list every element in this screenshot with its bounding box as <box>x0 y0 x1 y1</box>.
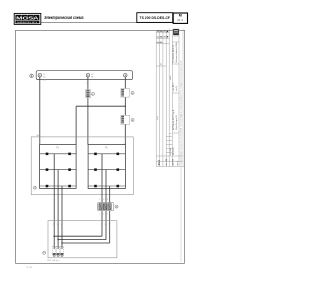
wire: horizontal branch tying W2 node to W3 <box>76 105 125 107</box>
wire U2: right rectifier output to terminal block <box>101 154 103 203</box>
svg-text:MOSA: MOSA <box>16 16 39 22</box>
wire: X2 pin 1 drop <box>101 211 103 237</box>
diode D3 <box>46 168 49 171</box>
fuse F2 reference bubble <box>131 91 134 94</box>
svg-text:04.03.03: 04.03.03 <box>173 148 175 155</box>
socket reference bubble P <box>43 251 46 254</box>
sheet ref box M 01.4 <box>173 13 187 23</box>
title block property fine print <box>180 61 183 165</box>
svg-text:230V 16A 3p+t: 230V 16A 3p+t <box>47 259 60 262</box>
title block grid lines <box>156 29 184 167</box>
svg-text:scala: scala <box>170 76 172 80</box>
diode D10 <box>117 168 120 171</box>
pin labels below terminal block <box>99 213 108 215</box>
fuse holder FU1 <box>53 246 56 256</box>
wire: cross link pin1 to wire U <box>54 235 102 237</box>
fuse F1 reference bubble <box>91 92 94 95</box>
pin labels 1 2 3 above terminal block <box>99 199 109 201</box>
svg-text:Bk: Bk <box>37 135 39 137</box>
title block bottom rows: sheet number and approvals <box>157 158 179 165</box>
diode D9 <box>94 168 97 171</box>
terminal block X2 <box>97 203 113 211</box>
title block MOSA logo <box>173 29 179 35</box>
header rule <box>41 22 188 24</box>
terminal 3 on bus <box>124 74 127 77</box>
alternator output terminal bus X1 <box>36 71 132 80</box>
diode D2 <box>68 153 71 156</box>
diode D11 <box>94 185 97 188</box>
svg-text:foglio: foglio <box>157 116 159 120</box>
wire W1: terminal 1 to left rectifier <box>39 77 41 144</box>
model title box TS 200 DS-DES-CF <box>137 13 173 23</box>
svg-text:MOSA div. BCS S.p.A.: MOSA div. BCS S.p.A. <box>172 109 175 130</box>
junction on W2 at branch <box>87 106 88 107</box>
wire: X2 pin 2 drop <box>105 211 107 240</box>
diode D4 <box>68 168 71 171</box>
fuse F1 on wire W2 <box>86 90 91 98</box>
svg-text:M: M <box>164 31 166 33</box>
svg-text:Viale Europa 59: Viale Europa 59 <box>175 114 178 130</box>
phase labels U V W left <box>53 224 63 226</box>
svg-text:0: 0 <box>170 133 172 134</box>
diode D8 <box>117 153 120 156</box>
phase labels U V W right <box>101 224 111 226</box>
enclosure reference bubble G <box>33 186 36 189</box>
terminal 1 on bus <box>38 74 41 77</box>
node L1 label <box>43 74 46 78</box>
svg-text:appr. M: appr. M <box>173 158 175 165</box>
diode D6 <box>68 185 71 188</box>
svg-text:G: G <box>34 188 36 190</box>
svg-text:M 243: M 243 <box>27 267 33 269</box>
svg-text:M: M <box>164 37 166 39</box>
diode D1 <box>46 153 49 156</box>
svg-text:Bk: Bk <box>43 80 45 82</box>
left rectifier bridge T1 body <box>40 144 77 188</box>
fuse F2 on wire W3 <box>121 89 130 98</box>
right rectifier bridge T2 body <box>88 145 125 189</box>
wire V: left rectifier output to fuse holder <box>57 170 59 249</box>
svg-text:W: W <box>61 224 63 226</box>
MOSA logo box <box>14 13 41 24</box>
svg-text:Schema elettrico 50Hz: Schema elettrico 50Hz <box>175 42 178 63</box>
svg-text:1: 1 <box>99 213 100 215</box>
auxiliary socket box <box>48 221 117 258</box>
wire W2b: right rectifier output to terminal block <box>109 186 111 203</box>
wire: X2 pin 3 drop <box>109 211 111 243</box>
junction on wire W <box>61 242 63 244</box>
svg-text:tav. M: tav. M <box>175 86 178 91</box>
wire V2: right rectifier output to terminal block <box>105 170 107 203</box>
wire U: left rectifier output to fuse holder <box>53 154 55 249</box>
title block sheet cross-reference texts <box>157 31 169 45</box>
svg-text:01.4: 01.4 <box>177 18 183 22</box>
fuse F3 on wire W3 <box>121 115 130 124</box>
fuse holder FU2 <box>56 246 59 256</box>
fuse holder FU3 <box>60 246 63 256</box>
junction on W3 at branch <box>125 106 126 107</box>
wire: cross link pin2 to wire V <box>58 239 106 241</box>
fuse F3 reference bubble <box>131 118 134 121</box>
junction on wire V <box>57 239 59 241</box>
svg-text:GENERATING SETS: GENERATING SETS <box>17 21 38 24</box>
svg-text:4c: 4c <box>160 42 162 44</box>
svg-text:dis. GB: dis. GB <box>166 158 168 165</box>
generator enclosure boundary <box>31 137 133 195</box>
svg-text:Электрическая схема: Электрическая схема <box>44 15 84 20</box>
inner frame right edge <box>180 167 182 263</box>
wire: cross link pin3 to wire W <box>62 242 110 244</box>
svg-text:01.4: 01.4 <box>157 160 161 166</box>
wire: branch drop to left rectifier top <box>75 106 77 144</box>
svg-text:Il presente disegno e di propr: Il presente disegno e di proprieta riser… <box>180 61 183 165</box>
terminal 2 on bus <box>86 74 89 77</box>
svg-text:W: W <box>108 224 110 226</box>
junction on wire U <box>53 235 55 237</box>
svg-text:TS 200 DS-DES-CF: TS 200 DS-DES-CF <box>140 16 171 20</box>
diode D7 <box>94 153 97 156</box>
ground PE symbol <box>30 74 34 78</box>
node L2 label <box>91 74 93 78</box>
drawing frame <box>16 30 185 263</box>
wire W2: terminal 2 to right rectifier <box>87 77 89 145</box>
svg-text:2: 2 <box>103 213 104 215</box>
wire W3: terminal 3 down the right side <box>124 77 126 145</box>
title block rotated description texts <box>157 42 178 155</box>
svg-text:rev. data: rev. data <box>169 148 172 155</box>
wire W: left rectifier output to fuse holder <box>61 186 63 249</box>
svg-text:3: 3 <box>107 213 108 215</box>
terminal block X2 reference bubble <box>115 205 118 208</box>
diode D5 <box>46 185 49 188</box>
svg-text:9b: 9b <box>91 76 93 78</box>
diode D12 <box>117 185 120 188</box>
